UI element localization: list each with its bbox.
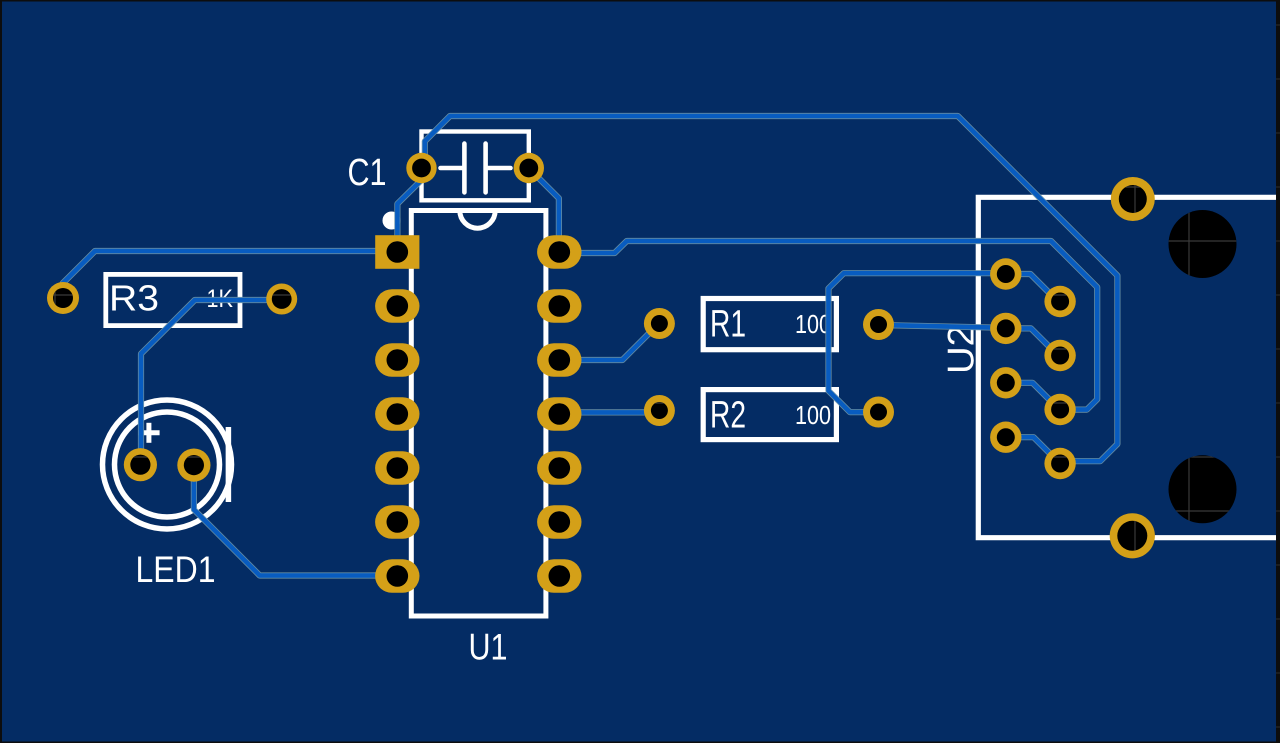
- trace underlay (clearance edge): [63, 116, 1117, 576]
- pad R1.1: [644, 308, 675, 339]
- svg-text:100: 100: [795, 400, 831, 430]
- svg-text:U1: U1: [469, 627, 508, 668]
- wire U2 pad pair 2: [1006, 328, 1060, 355]
- wire R1.right to U2 left pad2: [879, 325, 1006, 328]
- svg-text:R2: R2: [710, 394, 746, 436]
- resistor R3 outline: [106, 274, 240, 325]
- pad R1.2: [863, 309, 894, 340]
- pad LED1 anode: [124, 448, 157, 481]
- LED1 outer circle: [103, 400, 232, 529]
- U1 pin1 marker dot: [383, 212, 401, 230]
- pads U1 pins 2-7: [375, 289, 419, 323]
- pad R3.1: [47, 282, 79, 314]
- pad C1.1: [406, 153, 436, 183]
- svg-text:C1: C1: [348, 152, 387, 194]
- resistor R2 outline: [703, 390, 836, 440]
- U1 notch: [460, 211, 495, 229]
- wire U2 pad pair 1: [1006, 274, 1060, 302]
- resistor R1 outline: [703, 299, 836, 350]
- LED1 flat edge: [226, 427, 232, 502]
- pads U1 pins 8-14: [537, 235, 581, 269]
- wire R2.right to U2 left pad1: [829, 273, 1006, 412]
- svg-text:R3: R3: [109, 277, 159, 318]
- pad R2.2: [863, 397, 894, 428]
- wire U1 right pin3 to R1.left: [559, 323, 659, 360]
- pad C1.2: [514, 153, 544, 183]
- pad U2 mounting bottom: [1110, 513, 1155, 558]
- C1 leads: [441, 166, 463, 171]
- wire U2 pad pair 3: [1006, 383, 1060, 410]
- drill hole bottom: [1169, 455, 1237, 523]
- wire C1.left down to U1 pin1: [397, 169, 421, 252]
- connector U2 outline: [978, 197, 1276, 537]
- svg-text:U2: U2: [941, 325, 982, 374]
- wire U2 pad pair 4: [1006, 437, 1060, 463]
- wire R3.right to LED1 anode: [141, 300, 282, 465]
- drill hole top: [1169, 210, 1237, 278]
- pad U1 pin1 (square): [375, 235, 419, 269]
- pads U2 left column: [990, 258, 1021, 289]
- pad R3.2: [266, 284, 297, 315]
- wire C1.left up, top run to U2 right pad4: [425, 116, 1118, 461]
- wire R3.left to U1 pin1 (net1): [63, 116, 1117, 576]
- pad LED1 cathode: [177, 449, 210, 482]
- grid lines on right canvas strip: [1276, 25, 1280, 727]
- svg-text:R1: R1: [710, 303, 746, 345]
- C1 plates: [462, 144, 467, 193]
- pad R2.1: [644, 395, 675, 426]
- LED1 plus sign: [138, 430, 159, 435]
- wire C1.right to U1 right pin1: [529, 168, 559, 252]
- op IC U1 outline: [411, 211, 546, 617]
- svg-text:LED1: LED1: [136, 548, 216, 590]
- wire U1 right pin1 to U2 right pad3: [559, 241, 1097, 410]
- wire U1 right pin4 to R2.left: [559, 410, 659, 415]
- wire LED1 cathode to U1 pin7: [194, 465, 397, 576]
- pad U2 mounting top: [1111, 177, 1155, 221]
- pads U2 right column: [1044, 286, 1075, 317]
- LED1 inner circle: [115, 412, 220, 517]
- capacitor C1 outline: [422, 132, 529, 201]
